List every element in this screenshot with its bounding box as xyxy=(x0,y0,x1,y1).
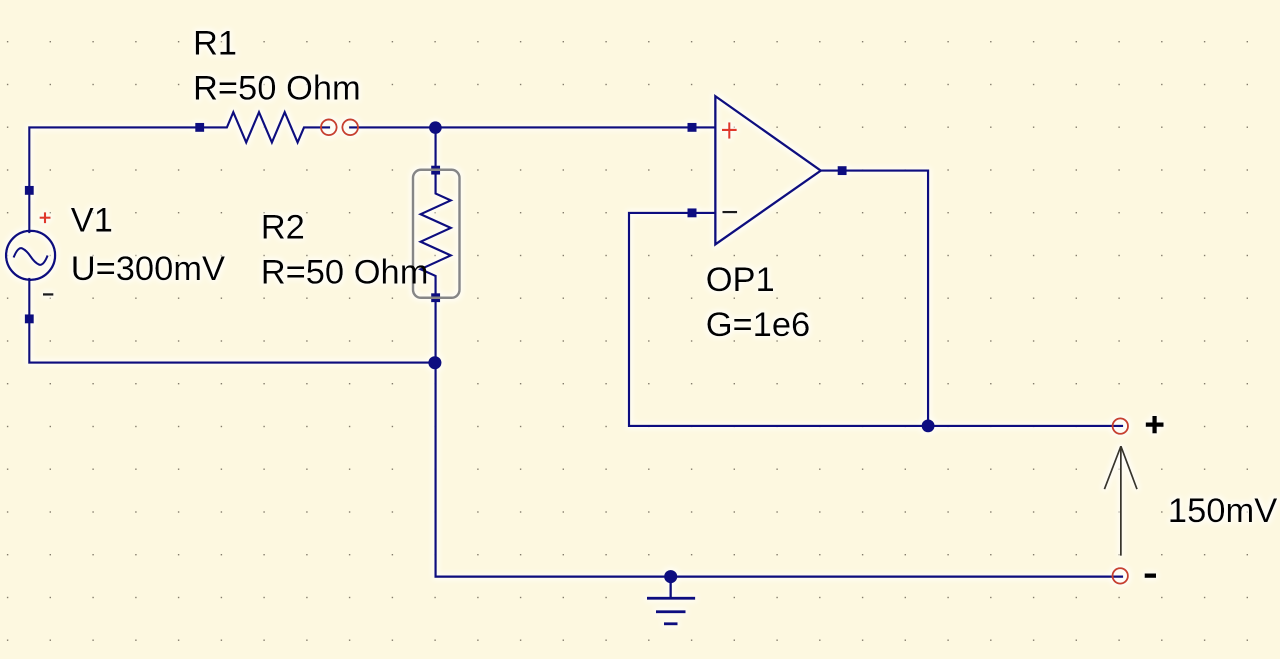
pin R2 bottom xyxy=(431,293,440,302)
wire down to ground rail xyxy=(436,363,1122,577)
ground xyxy=(647,577,695,624)
V1 polarity plus (red) xyxy=(40,122,737,223)
svg-text:150mV: 150mV xyxy=(1168,492,1277,530)
wire op-amp minus input feedback xyxy=(629,213,928,426)
open node circle output plus xyxy=(1113,418,1128,433)
svg-text:V1: V1 xyxy=(71,202,113,240)
selection box around R2 xyxy=(413,170,460,298)
pin op-amp plus xyxy=(688,123,697,132)
output minus marker xyxy=(1145,574,1156,578)
wire from R1 to op-amp plus input xyxy=(350,126,714,128)
svg-text:R2: R2 xyxy=(261,208,305,246)
pin R2 top xyxy=(431,166,440,175)
node junction bottom of R2 xyxy=(428,356,441,369)
wire R2 bottom xyxy=(434,298,436,363)
wire V1 top lead xyxy=(28,190,30,232)
V1 sine wave xyxy=(14,248,47,265)
wire bottom-left from V1 xyxy=(29,319,435,363)
open node circle output minus xyxy=(1113,568,1128,583)
voltage arrow 150mV xyxy=(1104,446,1137,556)
svg-text:OP1: OP1 xyxy=(706,261,775,299)
pin V1 bottom xyxy=(25,314,34,323)
svg-text:R1: R1 xyxy=(193,25,237,63)
op-amp minus input mark (black) xyxy=(723,211,738,213)
wire op-amp output xyxy=(821,171,928,426)
wire top-left from V1 to R1 xyxy=(29,127,199,190)
node junction ground xyxy=(664,570,677,583)
node junction R1/R2 xyxy=(429,121,442,134)
pin op-amp minus xyxy=(688,208,697,217)
op-amp OP1 triangle xyxy=(715,96,821,244)
wire to plus terminal xyxy=(928,425,1122,427)
svg-text:R=50 Ohm: R=50 Ohm xyxy=(261,254,429,292)
svg-text:R=50 Ohm: R=50 Ohm xyxy=(193,70,361,108)
terminal squares xyxy=(25,123,847,324)
wire R2 top xyxy=(434,127,436,170)
pin R1 left xyxy=(195,123,204,132)
voltage source V1 circle xyxy=(6,231,55,280)
resistor R1 xyxy=(200,112,329,142)
pin V1 top xyxy=(25,186,34,195)
output plus marker xyxy=(1145,416,1164,576)
resistor R2 xyxy=(421,170,451,298)
svg-text:U=300mV: U=300mV xyxy=(71,250,225,288)
open node circles at R1 right xyxy=(321,120,1128,584)
V1 polarity minus (black) xyxy=(43,293,53,295)
wire V1 bottom lead xyxy=(28,279,30,319)
op-amp plus input mark (red) xyxy=(722,129,737,131)
node junction feedback/output xyxy=(922,419,935,432)
svg-text:G=1e6: G=1e6 xyxy=(706,306,811,344)
pin op-amp output xyxy=(838,166,847,175)
